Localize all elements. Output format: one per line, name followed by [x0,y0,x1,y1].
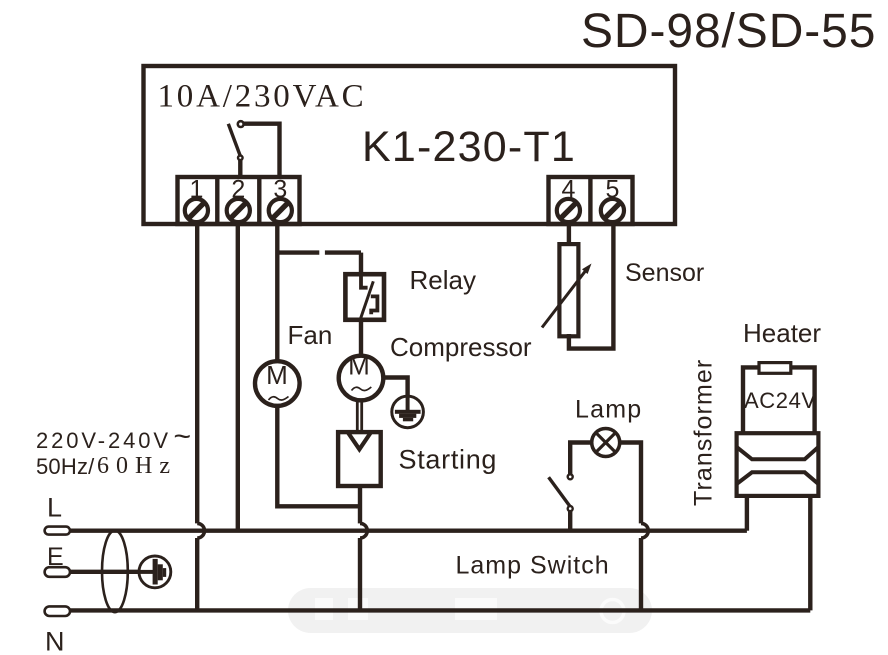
wire terminal1 to N bus with hop over L bus [197,222,204,610]
L spade terminal [45,527,70,535]
svg-text:SD-98/SD-55: SD-98/SD-55 [581,5,876,58]
terminal block 4-5 [549,177,633,224]
wire starting device to N bus with hop over L bus [360,486,367,610]
svg-text:M: M [266,360,288,390]
svg-text:N: N [45,627,65,655]
controller box K1-230-T1 [144,66,676,224]
fan wavy mark [269,397,289,401]
svg-text:Relay: Relay [410,265,476,295]
svg-text:Lamp Switch: Lamp Switch [456,552,610,580]
heater loop wires [743,367,815,433]
svg-text:Heater: Heater [743,318,821,348]
N spade terminal [45,606,70,616]
wire transformer right to N bus [808,496,812,610]
svg-text:E: E [47,543,64,571]
fan motor M [255,361,300,406]
protective earth symbol (mains plug) [139,556,171,588]
sensor arrow [542,264,592,328]
wire lamp left to lamp switch [570,443,592,475]
terminal screw 4 [557,199,580,222]
terminal screw 3 [269,199,292,222]
svg-text:K1-230-T1: K1-230-T1 [362,123,576,171]
svg-text:50Hz/: 50Hz/ [36,454,95,479]
wire compressor to earth [383,378,407,397]
svg-text:~: ~ [174,420,192,453]
mains cable ellipse [102,530,128,612]
svg-text:Starting: Starting [399,445,498,475]
svg-text:220V-240V: 220V-240V [36,428,171,453]
svg-text:4: 4 [561,176,575,204]
svg-text:60Hz: 60Hz [97,453,177,479]
heater element [759,363,791,374]
internal relay contact switch [228,121,279,177]
sensor thermistor body [559,244,578,336]
starting device V notch [348,433,371,450]
double wire compressor to starting device [357,401,361,432]
protective earth symbol (compressor) [392,396,424,428]
svg-text:10A/230VAC: 10A/230VAC [158,79,367,115]
E wire [70,570,140,574]
wire terminal2 to L bus [236,222,240,531]
L bus wire [70,529,747,533]
terminal screw 1 [185,199,208,222]
relay R (overload protector) box [345,274,384,320]
relay internal contact symbol [360,276,377,320]
svg-text:Sensor: Sensor [625,259,704,287]
compressor wavy mark [352,387,372,391]
svg-text:5: 5 [605,176,619,204]
terminal block 1-2-3 [178,177,300,224]
lamp switch [549,474,573,530]
transformer bottom winding [737,472,819,484]
sensor return wire to terminal5 [569,222,614,349]
wire lamp right to N bus with hop over L bus [620,443,649,611]
svg-text:2: 2 [231,176,245,204]
wire relay to compressor [359,320,363,356]
svg-text:M: M [348,351,370,381]
wire fan to starting junction [277,406,360,507]
svg-text:L: L [47,493,62,523]
compressor motor M [339,356,384,401]
E spade terminal [45,567,70,577]
N bus wire [70,608,810,612]
svg-text:Lamp: Lamp [575,396,642,424]
wire terminal4 to sensor [567,222,571,246]
transformer box [737,433,819,496]
lamp symbol [592,429,620,457]
svg-text:AC24V: AC24V [744,388,817,413]
svg-text:Fan: Fan [288,320,333,350]
svg-text:Transformer: Transformer [690,359,718,506]
svg-text:3: 3 [273,176,287,204]
terminal screw 2 [227,199,250,222]
wire transformer left to L bus [745,496,749,531]
wire branch to relay (with gap) [277,253,361,276]
terminal screw 5 [601,199,624,222]
svg-text:1: 1 [189,176,203,204]
svg-text:Compressor: Compressor [390,332,532,362]
starting device box [338,432,381,486]
wire terminal3 down to fan [275,222,279,363]
transformer top winding [737,447,819,459]
